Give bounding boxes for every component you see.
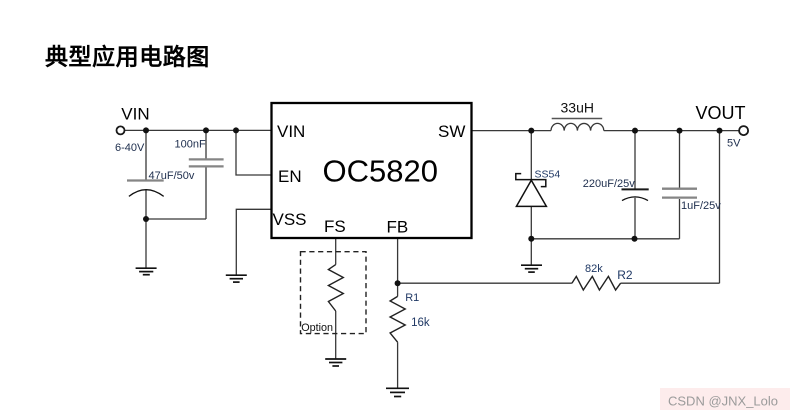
option dashed box <box>301 252 367 334</box>
capacitor C1 47uF/50v electrolytic <box>127 181 164 197</box>
ground G1 (input cap) <box>136 268 157 275</box>
svg-text:EN: EN <box>278 167 302 186</box>
junction dot SW/diode <box>528 128 534 134</box>
junction dot rail/sense <box>717 128 723 134</box>
ground G2 (VSS) <box>226 275 247 282</box>
wire C1 top (rail to 47uF plate) <box>145 130 147 180</box>
svg-text:33uH: 33uH <box>561 99 594 115</box>
svg-text:VOUT: VOUT <box>696 103 746 123</box>
svg-text:SS54: SS54 <box>535 169 561 181</box>
resistor R1 16k zigzag <box>390 296 405 342</box>
junction dot C1/C2 bottom <box>143 216 149 222</box>
wire C1 bottom (arc to junction to ground) <box>145 190 147 268</box>
wire FB pin stub <box>397 238 399 283</box>
junction dot diode/bottom rail <box>528 236 534 242</box>
wire C3 bottom <box>634 198 636 239</box>
wire inductor to VOUT terminal <box>604 130 739 132</box>
wire VSS to ground <box>236 209 271 274</box>
svg-text:FS: FS <box>324 217 346 236</box>
svg-text:CSDN @JNX_Lolo: CSDN @JNX_Lolo <box>668 393 778 408</box>
wire FS pin stub <box>335 238 337 265</box>
svg-text:R2: R2 <box>617 268 633 282</box>
wire SW to inductor <box>472 130 552 132</box>
junction dot rail/C2 <box>203 127 209 133</box>
wire VIN rail (terminal to IC VIN pin) <box>125 129 272 131</box>
watermark background <box>660 388 790 410</box>
junction dot FB/R1/R2 <box>395 280 401 286</box>
wire R1 bottom to ground <box>397 342 399 387</box>
diode D1 SS54 schottky cathode <box>516 174 546 187</box>
svg-text:典型应用电路图: 典型应用电路图 <box>45 44 210 70</box>
junction dot rail/C4 <box>677 128 683 134</box>
svg-text:82k: 82k <box>585 263 603 275</box>
ground G5 (R1) <box>386 388 409 396</box>
svg-text:5V: 5V <box>727 138 741 150</box>
junction dot rail/EN <box>233 127 239 133</box>
wire link C1/C2 bottoms <box>146 218 206 220</box>
resistor option (FS) zigzag <box>328 265 343 311</box>
diode D1 triangle anode <box>516 180 546 206</box>
svg-text:VIN: VIN <box>277 122 305 141</box>
svg-text:VSS: VSS <box>273 210 307 229</box>
wire C3 top <box>634 131 636 189</box>
svg-text:6-40V: 6-40V <box>115 142 145 154</box>
wire FB junction to R2 left <box>398 282 572 284</box>
wire diode anode to bottom rail and ground <box>530 206 532 264</box>
svg-text:R1: R1 <box>405 292 419 304</box>
junction dot rail/C1 <box>143 127 149 133</box>
capacitor C3 220uF/25v electrolytic <box>622 189 649 200</box>
junction dot bottom rail/C3 <box>632 236 638 242</box>
junction dot rail/C3 <box>632 128 638 134</box>
inductor L1 33uH <box>551 123 604 130</box>
svg-text:47uF/50v: 47uF/50v <box>149 170 195 182</box>
wire EN drop from rail <box>236 130 272 175</box>
svg-text:16k: 16k <box>411 317 430 329</box>
terminal VIN circle <box>117 126 125 134</box>
svg-text:220uF/25v: 220uF/25v <box>583 178 635 190</box>
svg-text:VIN: VIN <box>121 104 149 123</box>
ground G4 (option) <box>325 359 346 366</box>
wire SW node to diode cathode <box>530 131 532 180</box>
IC U1 OC5820 body <box>272 103 472 238</box>
wire C2 bottom <box>205 167 207 219</box>
wire R2 right to sense <box>621 282 720 284</box>
wire bottom rail (diode to 1uF) <box>531 238 679 240</box>
capacitor C2 100nF <box>189 159 224 166</box>
ground G3 (diode) <box>521 265 542 272</box>
wire option resistor bottom to ground <box>335 311 337 359</box>
svg-text:1uF/25v: 1uF/25v <box>681 200 721 212</box>
svg-text:Option: Option <box>301 322 333 334</box>
wire C2 top (rail to 100nF plate) <box>205 130 207 158</box>
svg-text:OC5820: OC5820 <box>323 153 438 188</box>
svg-text:100nF: 100nF <box>175 139 206 151</box>
svg-text:FB: FB <box>387 218 409 237</box>
wire C4 bottom <box>679 199 681 239</box>
inductor L1 core bar <box>552 118 603 120</box>
svg-text:SW: SW <box>438 122 465 141</box>
wire C4 top <box>679 131 681 188</box>
wire VOUT sense down <box>719 131 721 284</box>
resistor R2 82k zigzag <box>572 276 621 290</box>
capacitor C4 1uF/25v <box>662 189 697 198</box>
wire R1 top stub <box>397 283 399 296</box>
terminal VOUT circle <box>739 126 748 135</box>
